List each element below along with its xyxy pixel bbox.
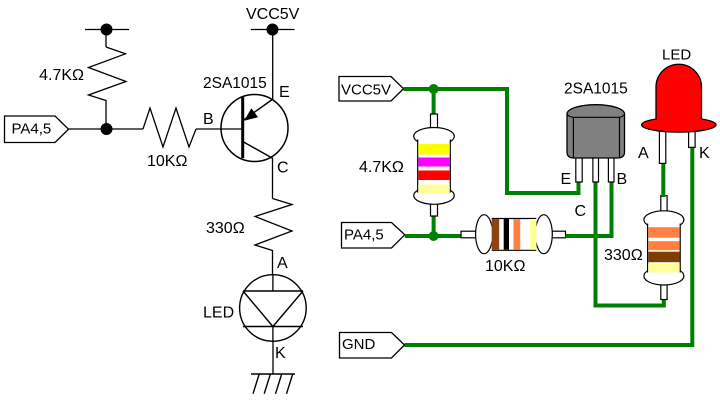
wire emitter to VCC	[272, 30, 274, 100]
resistor R1 4.7K pictorial body	[414, 128, 455, 205]
transistor Q1 pictorial body	[567, 105, 625, 158]
wire junction down to R1 top lead	[432, 89, 436, 116]
R3 band pale gold	[648, 264, 679, 273]
R3 band orange 1	[648, 227, 679, 238]
LED D1 anode wire inside	[272, 275, 274, 291]
tag GND	[340, 333, 405, 359]
wire base into transistor	[196, 128, 242, 130]
transistor Q1 2SA1015 circle	[221, 95, 288, 162]
svg-text:K: K	[275, 345, 286, 362]
resistor R2 10K pictorial left lead	[461, 231, 476, 238]
VCC5V wire	[251, 29, 295, 31]
resistor R3 330 pictorial bottom lead	[661, 284, 667, 300]
junction dot VCC	[429, 84, 439, 94]
svg-text:2SA1015: 2SA1015	[203, 75, 267, 92]
resistor R1 4.7K pictorial bottom lead	[431, 202, 438, 216]
svg-text:4.7KΩ: 4.7KΩ	[359, 159, 404, 176]
svg-text:VCC5V: VCC5V	[246, 6, 300, 23]
R3 band orange 2	[648, 241, 679, 250]
resistor R1 4.7K pictorial top lead	[431, 114, 438, 129]
wire cathode to ground	[272, 341, 274, 374]
R1 band yellow	[418, 144, 449, 155]
R2 band orange	[514, 219, 521, 250]
svg-text:E: E	[279, 84, 290, 101]
resistor R2 10K pictorial right lead	[552, 231, 566, 238]
LED pictorial dome fill	[656, 64, 702, 124]
svg-text:2SA1015: 2SA1015	[564, 81, 628, 98]
LED D1 triangle left side	[243, 291, 273, 327]
resistor R3 330 pictorial top lead	[661, 196, 667, 212]
svg-text:B: B	[617, 171, 628, 188]
resistor R2 10K zigzag	[143, 108, 196, 147]
svg-text:PA4,5: PA4,5	[12, 120, 52, 137]
transistor Q1 emitter arrow	[244, 108, 258, 121]
wire C net from transistor to 330 bottom	[596, 180, 664, 306]
LED pictorial flange	[642, 118, 716, 133]
tag VCC5V (right)	[339, 77, 404, 102]
R2 band brown	[492, 219, 500, 250]
wire GND net	[405, 145, 693, 345]
node junction dot above R1	[101, 24, 113, 36]
R1 band magenta	[418, 158, 449, 167]
wire 10K to transistor B	[566, 180, 612, 236]
svg-text:PA4,5: PA4,5	[344, 227, 384, 244]
svg-text:B: B	[203, 111, 214, 128]
wire collector down to R3	[272, 159, 274, 199]
svg-text:A: A	[277, 255, 288, 272]
resistor R2 10K pictorial body	[476, 215, 553, 254]
svg-text:C: C	[277, 160, 289, 177]
LED D1 top bar	[243, 290, 303, 292]
LED D1 circle	[240, 275, 307, 342]
transistor Q1 top corner slivers	[567, 115, 625, 118]
transistor Q1 base bar	[241, 96, 244, 158]
transistor Q1 pictorial legs	[576, 155, 614, 182]
svg-text:VCC5V: VCC5V	[341, 82, 391, 99]
svg-text:10KΩ: 10KΩ	[485, 258, 525, 275]
svg-text:A: A	[638, 145, 649, 162]
ground symbol	[251, 374, 295, 394]
svg-text:LED: LED	[662, 47, 691, 64]
svg-text:C: C	[575, 203, 587, 220]
svg-text:K: K	[699, 145, 710, 162]
svg-text:E: E	[561, 171, 572, 188]
wire R1 bottom lead to PA net	[432, 214, 436, 236]
transistor Q1 emitter line	[244, 99, 274, 120]
R2 band black	[504, 219, 509, 250]
svg-text:330Ω: 330Ω	[206, 220, 245, 237]
R1 band red	[418, 171, 449, 181]
resistor R1 4.7K zigzag	[89, 47, 127, 129]
junction dot PA	[429, 231, 439, 241]
LED D1 cathode wire inside	[272, 327, 274, 342]
R3 band brown	[648, 252, 679, 263]
svg-text:LED: LED	[203, 305, 234, 322]
LED pictorial dome outline	[656, 64, 702, 119]
svg-text:4.7KΩ: 4.7KΩ	[39, 67, 84, 84]
tag PA4,5 (left)	[5, 116, 69, 143]
LED D1 cathode bar	[243, 326, 303, 328]
LED D1 triangle right side	[273, 291, 303, 327]
wire PA4,5 to 10K	[69, 128, 144, 130]
LED pictorial legs	[659, 129, 695, 163]
svg-text:330Ω: 330Ω	[604, 247, 643, 264]
wire LED A to 330 top	[661, 162, 665, 197]
wire PA net	[405, 234, 461, 238]
resistor R3 330 zigzag	[255, 199, 292, 275]
svg-text:10KΩ: 10KΩ	[147, 153, 187, 170]
VCC stub wire over R1	[85, 29, 129, 31]
transistor Q1 face outline	[573, 117, 619, 158]
svg-text:GND: GND	[342, 336, 376, 353]
transistor Q1 collector line	[243, 142, 273, 159]
wire VCC net to transistor E	[404, 89, 579, 193]
node junction dot at base wire	[101, 123, 113, 135]
resistor R3 330 pictorial body	[644, 211, 684, 285]
R1 band pale gold	[418, 185, 449, 194]
R2 band pale gold	[530, 219, 537, 250]
wire from node down to R1	[105, 30, 107, 48]
tag PA4,5 (right)	[342, 223, 405, 249]
node junction dot VCC	[267, 24, 279, 36]
